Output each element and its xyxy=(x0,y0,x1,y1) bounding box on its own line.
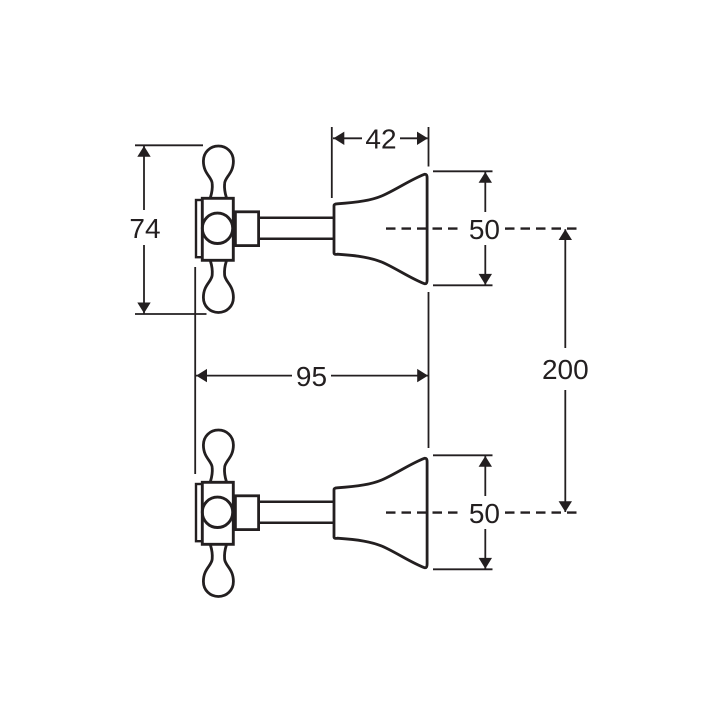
svg-text:95: 95 xyxy=(296,361,327,392)
dim 50 top: extension line lower xyxy=(433,284,493,286)
centerline top (dashed, right of label) xyxy=(505,227,578,229)
dim 42 extension line right xyxy=(428,127,430,167)
dim 95 line right segment xyxy=(331,375,428,377)
dim 74 extension line bottom xyxy=(135,313,207,315)
arrow 50 bottom up xyxy=(479,456,492,467)
dim 42 line left segment xyxy=(333,137,362,139)
svg-text:50: 50 xyxy=(469,214,500,245)
dim 200 line upper segment xyxy=(564,229,566,348)
arrow 50 bottom down xyxy=(479,558,492,569)
tap valve assembly (bottom) xyxy=(196,430,427,597)
arrow 200 up xyxy=(559,229,572,240)
arrow 200 down xyxy=(559,501,572,512)
dim 200 line lower segment xyxy=(564,390,566,512)
centerline bottom (dashed, right of label) xyxy=(505,511,578,513)
dim 50 bottom: extension line lower xyxy=(433,568,493,570)
dim 50 top: line upper segment xyxy=(484,172,486,212)
centerline bottom (dashed, left of label) xyxy=(386,511,463,513)
arrow 50 top down xyxy=(479,274,492,285)
dim 74 line upper segment xyxy=(143,146,145,210)
tap valve assembly (top) xyxy=(196,146,427,313)
arrow 42 left xyxy=(334,132,345,145)
arrow 95 right xyxy=(417,369,428,382)
arrow 50 top up xyxy=(479,172,492,183)
dim 74 line lower segment xyxy=(143,245,145,314)
dim 50 bottom: line lower segment xyxy=(484,529,486,569)
dim 50 bottom: line upper segment xyxy=(484,456,486,496)
dim 74 extension line top xyxy=(135,144,203,146)
dim 50 top: extension line upper xyxy=(433,170,493,172)
dim 50 bottom: extension line upper xyxy=(433,454,493,456)
arrow 42 right xyxy=(417,132,428,145)
svg-text:42: 42 xyxy=(365,124,396,155)
dim 42 line right segment xyxy=(400,137,428,139)
dim 95 extension line right (long vertical) xyxy=(428,292,430,448)
dim 95 extension line left (long vertical) xyxy=(194,267,196,474)
arrow 95 left xyxy=(196,369,207,382)
dim 42 extension line left xyxy=(331,127,333,198)
svg-text:200: 200 xyxy=(542,354,589,385)
dim 95 line left segment xyxy=(196,375,292,377)
svg-text:74: 74 xyxy=(129,213,160,244)
centerline top (dashed, left of label) xyxy=(386,227,463,229)
arrow 74 down xyxy=(137,303,150,314)
arrow 74 up xyxy=(137,146,150,157)
dim 50 top: line lower segment xyxy=(484,245,486,285)
svg-text:50: 50 xyxy=(469,498,500,529)
